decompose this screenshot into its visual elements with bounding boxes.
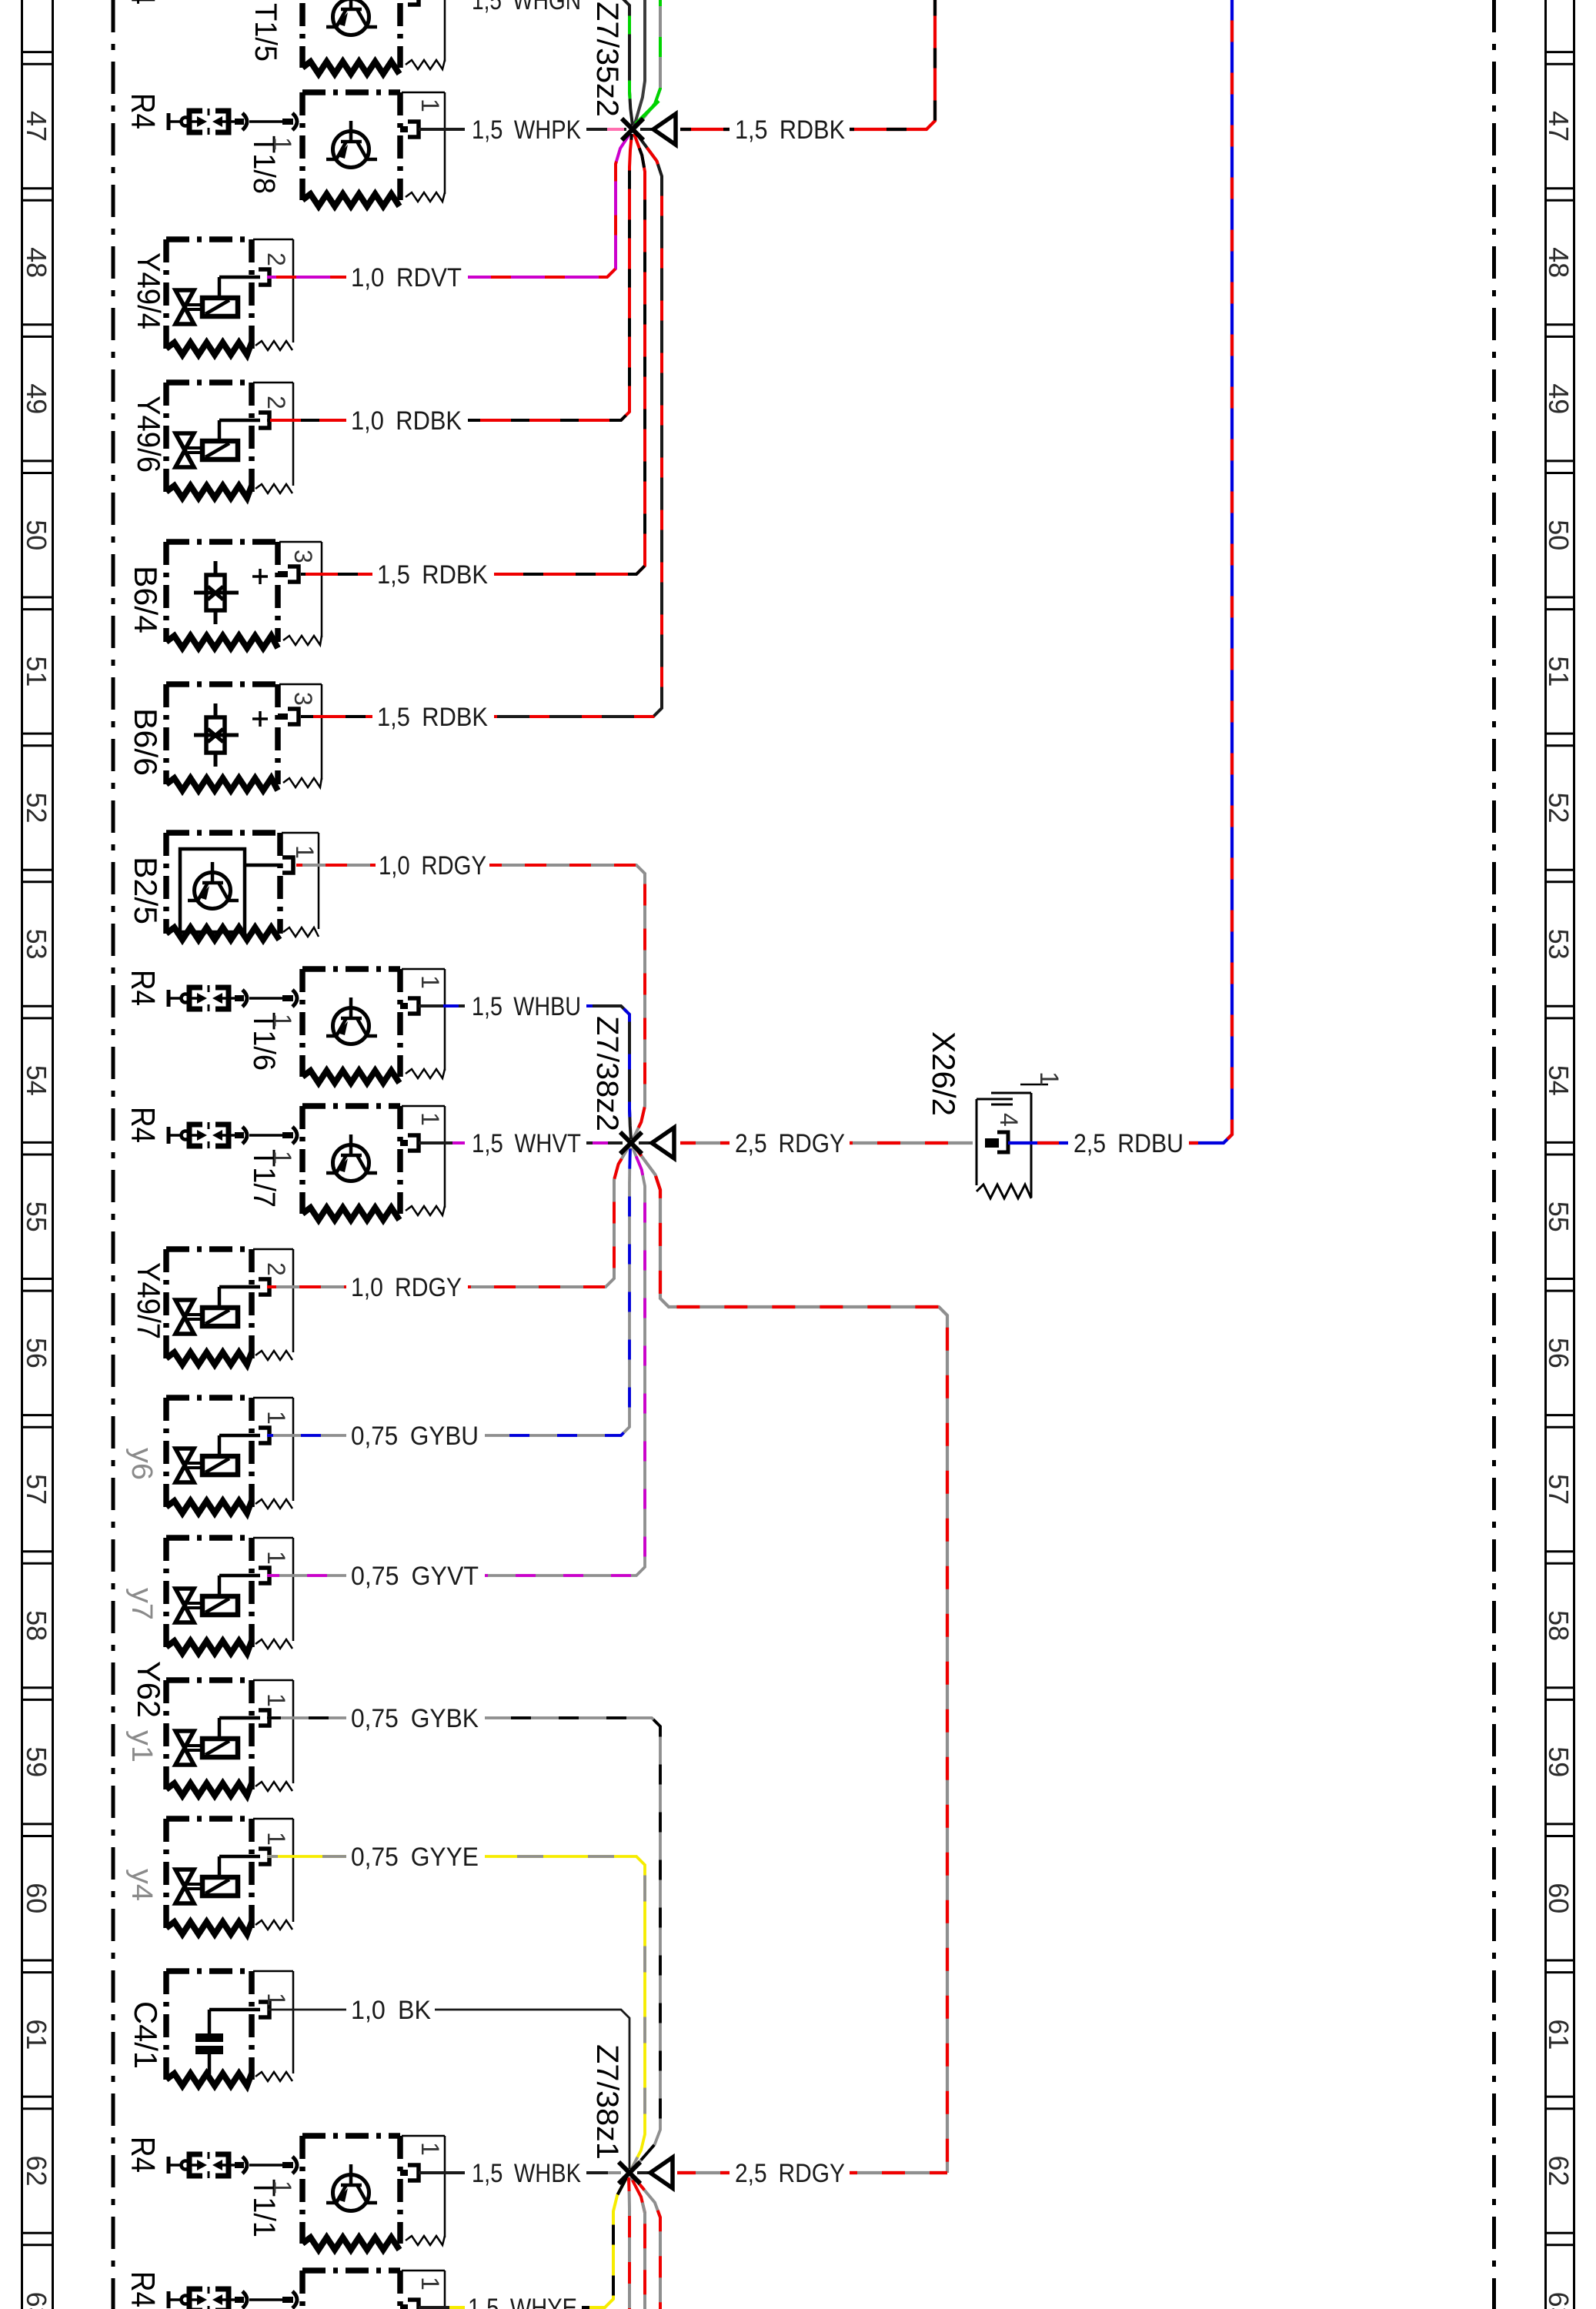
svg-text:2,5 RDGY: 2,5 RDGY [735, 1129, 845, 1158]
valve symbol Y49/6 [175, 420, 260, 467]
svg-text:Z7/38z1: Z7/38z1 [590, 2044, 624, 2160]
solenoid valve y1 [166, 1680, 293, 1796]
svg-text:1,5 WHBU: 1,5 WHBU [472, 992, 581, 1021]
ignition coil T1/6 [302, 969, 445, 1083]
wire 1,5 WHBU (T1/6 to Z7/38z2) [419, 1004, 465, 1007]
wire 2,5 RDGY (Z7/38z1 output) [677, 2171, 730, 2174]
svg-text:50: 50 [1543, 520, 1574, 550]
junction Z7/35z2 [622, 114, 676, 145]
solenoid valve y7 [166, 1538, 293, 1653]
svg-text:1,0 RDBK: 1,0 RDBK [351, 406, 462, 436]
transistor symbol T1/1 [326, 2164, 377, 2211]
svg-text:61: 61 [1543, 2019, 1574, 2050]
wire 0,75 GYBU (y6 to Z7/38z2) [267, 1434, 346, 1437]
svg-text:59: 59 [1543, 1746, 1574, 1777]
border: right grid numbers 47-63 [1543, 111, 1574, 2309]
svg-text:1,5 WHYE: 1,5 WHYE [468, 2294, 577, 2309]
svg-text:1: 1 [416, 2277, 444, 2291]
ignition coil T1/2 (bottom, clipped) [302, 2271, 445, 2309]
svg-text:56: 56 [1543, 1338, 1574, 1368]
svg-text:1: 1 [416, 975, 444, 989]
transistor symbol T1/7 [326, 1134, 377, 1181]
wire 1,0 RDGY (Y49/7 to Z7/38z2) [267, 1285, 346, 1288]
suppression capacitor C4/1 [166, 1971, 293, 2086]
wire 1,0 BK (C4/1 to Z7/38z1) [268, 2009, 346, 2011]
wire 2,5 RDGY (Z7/38z2 output to X26/2) [680, 1141, 730, 1144]
valve symbol y7 [175, 1576, 260, 1622]
svg-text:52: 52 [1543, 793, 1574, 824]
svg-text:0,75 GYBK: 0,75 GYBK [351, 1704, 479, 1733]
solenoid valve Y49/7 [166, 1249, 293, 1365]
valve symbol y6 [175, 1435, 260, 1482]
svg-text:48: 48 [21, 247, 52, 278]
wire WHGN feed 2 (off-page) into Z7/35z2 [636, 0, 660, 128]
pin lead B2/5 [245, 864, 282, 867]
svg-text:0,75 GYYE: 0,75 GYYE [351, 1843, 479, 1872]
svg-text:60: 60 [1543, 1883, 1574, 1913]
plus sign B6/6 [252, 711, 268, 727]
wire 1,5 WHBK (T1/1 to Z7/38z1) [419, 2171, 465, 2174]
svg-text:1: 1 [269, 2180, 296, 2194]
svg-text:1: 1 [262, 1693, 290, 1707]
svg-text:48: 48 [1543, 247, 1574, 278]
solenoid valve y4 [166, 1819, 293, 1934]
valve symbol y1 [175, 1718, 260, 1765]
svg-text:1,5 WHBK: 1,5 WHBK [472, 2159, 581, 2188]
wire 1,0 RDBK (Y49/6 to Z7/35z2) [267, 419, 346, 422]
svg-text:1,5 RDBK: 1,5 RDBK [735, 115, 845, 145]
svg-text:58: 58 [1543, 1610, 1574, 1641]
svg-text:Y62: Y62 [131, 1661, 167, 1718]
svg-text:R4: R4 [124, 93, 162, 129]
svg-text:54: 54 [1543, 1065, 1574, 1096]
air flow sensor B2/5 [166, 833, 319, 940]
svg-text:57: 57 [21, 1474, 52, 1505]
svg-text:R4: R4 [124, 970, 162, 1006]
svg-text:1,0 BK: 1,0 BK [351, 1996, 431, 2025]
svg-text:1,5 WHPK: 1,5 WHPK [472, 115, 581, 145]
svg-text:3: 3 [289, 692, 317, 706]
svg-text:y1: y1 [125, 1730, 158, 1763]
svg-text:62: 62 [21, 2156, 52, 2187]
wire 0,75 GYYE (y4 to Z7/38z1) [267, 1855, 346, 1858]
wire WH feed (off-page) into Z7/35z2 [634, 0, 645, 126]
svg-text:1,0 RDVT: 1,0 RDVT [351, 263, 462, 292]
svg-text:51: 51 [21, 656, 52, 687]
wire 0,75 GYBK (y1 to Z7/38z1) [267, 1716, 346, 1719]
svg-text:B6/4: B6/4 [128, 566, 164, 633]
svg-text:56: 56 [21, 1338, 52, 1368]
knock sensor B6/6 [166, 684, 322, 790]
valve symbol Y49/7 [175, 1287, 260, 1334]
svg-text:47: 47 [21, 111, 52, 142]
svg-text:1: 1 [269, 1151, 296, 1165]
wire 2,5 RDBU (X26/2 to off-page top) [1008, 1141, 1068, 1144]
green diagonal into Z7/35z2 [636, 101, 659, 124]
svg-text:1,5 RDBK: 1,5 RDBK [377, 560, 488, 590]
spark plug connector R4 (T1/8) [169, 109, 297, 135]
harness boundary dash-dot line (right) [1492, 0, 1496, 2309]
valve symbol Y49/4 [175, 277, 260, 324]
svg-text:y7: y7 [125, 1588, 158, 1620]
ignition coil T1/7 [302, 1106, 445, 1220]
svg-text:y4: y4 [125, 1869, 158, 1901]
svg-text:B6/6: B6/6 [128, 708, 164, 776]
junction Z7/38z1 [619, 2157, 673, 2188]
ignition coil T1/8 [302, 92, 445, 206]
svg-text:2,5 RDGY: 2,5 RDGY [735, 2159, 845, 2188]
svg-text:Y49/4: Y49/4 [131, 252, 167, 329]
svg-text:Y49/7: Y49/7 [131, 1262, 167, 1339]
svg-text:y6: y6 [125, 1448, 158, 1480]
ignition coil T1/5 [302, 0, 445, 74]
svg-text:61: 61 [21, 2019, 52, 2050]
border: left grid numbers 47-63 [21, 111, 52, 2309]
knock sensor B6/4 [166, 542, 322, 648]
solenoid valve Y49/4 [166, 239, 293, 355]
sensor element B6/4 [194, 561, 239, 624]
svg-text:1: 1 [416, 99, 444, 112]
svg-text:R4: R4 [124, 2137, 162, 2173]
svg-text:49: 49 [1543, 383, 1574, 414]
spark plug connector R4 (bottom row) [169, 2287, 297, 2309]
transistor symbol B2/5 [188, 862, 239, 909]
wire 1,0 RDVT (Y49/4 to Z7/35z2) [267, 276, 346, 279]
solenoid valve Y49/6 [166, 383, 293, 498]
svg-text:1: 1 [262, 1551, 290, 1565]
svg-text:Z7/38z2: Z7/38z2 [590, 1016, 624, 1131]
svg-text:55: 55 [1543, 1201, 1574, 1232]
svg-text:62: 62 [1543, 2156, 1574, 2187]
wire 1,5 WHVT (T1/7 to Z7/38z2) [419, 1141, 465, 1144]
svg-text:53: 53 [1543, 929, 1574, 960]
wire 1,5 WHYE (bottom row to Z7/38z1) [419, 2306, 465, 2309]
harness boundary dash-dot line (left) [112, 0, 115, 2309]
svg-text:2: 2 [262, 396, 290, 409]
svg-text:58: 58 [21, 1610, 52, 1641]
valve symbol y4 [175, 1856, 260, 1903]
capacitor symbol C4/1 [195, 2010, 260, 2074]
svg-text:55: 55 [21, 1201, 52, 1232]
svg-text:1: 1 [416, 2142, 444, 2156]
svg-text:1,5 RDBK: 1,5 RDBK [377, 703, 488, 732]
svg-text:2,5 RDBU: 2,5 RDBU [1073, 1129, 1184, 1158]
pin bracket B2/5 [282, 857, 293, 873]
transistor symbol T1/5 [326, 0, 377, 35]
svg-text:54: 54 [21, 1065, 52, 1096]
connector X26/2 [977, 1093, 1031, 1198]
svg-text:1: 1 [1034, 1071, 1063, 1086]
svg-text:49: 49 [21, 383, 52, 414]
svg-text:1: 1 [262, 1832, 290, 1846]
svg-text:2: 2 [262, 252, 290, 266]
wire 1,5 WHPK (T1/8 to Z7/35z2) [419, 128, 465, 131]
wire 1,0 RDGY (B2/5 to Z7/38z2) [296, 864, 376, 867]
wire 1,5 RDBK (B6/4 to Z7/35z2) [301, 573, 372, 576]
plus sign B6/4 [252, 569, 268, 584]
wire 2,5 RDGY branch (Z7/38z2 to Z7/38z1 output loop) [634, 1146, 947, 2173]
spark plug connector R4 (T1/6) [169, 985, 297, 1011]
border: left column rails [22, 0, 53, 2309]
svg-text:Z7/35z2: Z7/35z2 [590, 2, 624, 117]
ignition coil T1/1 [302, 2136, 445, 2250]
svg-text:1: 1 [269, 137, 296, 151]
wire RD feeds below Z7/38z1 (off-page) [629, 2177, 629, 2309]
svg-text:R4: R4 [124, 0, 162, 5]
wire 1,5 RDBK (Z7/35z2 output) [680, 128, 730, 131]
svg-text:X26/2: X26/2 [926, 1031, 962, 1116]
svg-text:51: 51 [1543, 656, 1574, 687]
svg-text:2: 2 [262, 1262, 290, 1276]
svg-text:C4/1: C4/1 [128, 2001, 164, 2069]
svg-text:1,0 RDGY: 1,0 RDGY [351, 1273, 462, 1302]
svg-text:47: 47 [1543, 111, 1574, 142]
svg-text:1: 1 [416, 1112, 444, 1126]
svg-text:Y49/6: Y49/6 [131, 396, 167, 473]
svg-text:60: 60 [21, 1883, 52, 1913]
svg-text:R4: R4 [124, 1107, 162, 1143]
svg-text:1: 1 [262, 1411, 290, 1425]
svg-text:1: 1 [291, 845, 319, 859]
border: right column rails [1546, 0, 1574, 2309]
transistor symbol T1/6 [326, 997, 377, 1044]
wire 0,75 GYVT (y7 to Z7/38z2) [267, 1574, 346, 1577]
svg-text:1,5 WHVT: 1,5 WHVT [472, 1129, 581, 1158]
spark plug connector R4 (T1/1) [169, 2152, 297, 2178]
svg-text:4: 4 [995, 1113, 1023, 1127]
svg-text:T1/5: T1/5 [249, 3, 282, 62]
transistor symbol T1/8 [326, 121, 377, 168]
svg-text:R4: R4 [124, 2271, 162, 2307]
sensor element B6/6 [194, 703, 239, 767]
svg-text:0,75 GYVT: 0,75 GYVT [351, 1562, 479, 1591]
svg-text:1: 1 [269, 1014, 296, 1028]
svg-text:0,75 GYBU: 0,75 GYBU [351, 1422, 479, 1451]
svg-text:1: 1 [262, 1993, 290, 2007]
junction Z7/38z2 [620, 1128, 674, 1158]
svg-text:1,0 RDGY: 1,0 RDGY [379, 851, 486, 880]
solenoid valve y6 [166, 1398, 293, 1513]
svg-text:53: 53 [21, 929, 52, 960]
svg-text:52: 52 [21, 793, 52, 824]
svg-text:3: 3 [289, 550, 317, 563]
pin 1 label X26/2 [1020, 1071, 1063, 1086]
svg-text:59: 59 [21, 1746, 52, 1777]
svg-text:63: 63 [1543, 2292, 1574, 2309]
svg-text:1,5 WHGN: 1,5 WHGN [472, 0, 581, 15]
svg-text:57: 57 [1543, 1474, 1574, 1505]
svg-text:B2/5: B2/5 [128, 857, 164, 924]
inner element box B2/5 [180, 849, 245, 932]
svg-text:63: 63 [21, 2292, 52, 2309]
wire 1,5 RDBK (B6/6 to Z7/35z2) [301, 715, 372, 718]
spark plug connector R4 (T1/7) [169, 1122, 297, 1148]
svg-text:50: 50 [21, 520, 52, 550]
